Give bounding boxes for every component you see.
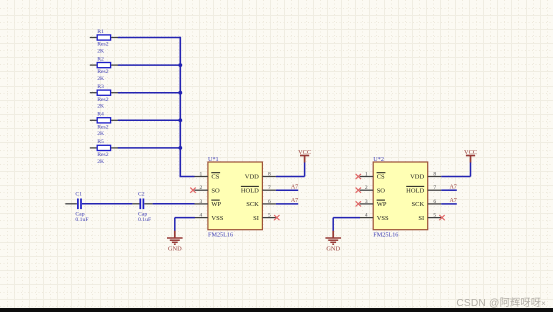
svg-text:GND: GND bbox=[168, 245, 182, 252]
U*2 pin 5 (SI) bbox=[418, 213, 441, 222]
U*1 pin 3 (WP) bbox=[194, 199, 221, 208]
svg-text:6: 6 bbox=[268, 199, 271, 205]
wire C2 to U*1 pin 3 bbox=[153, 203, 195, 205]
svg-text:1: 1 bbox=[365, 171, 368, 177]
U*1 pin 7 (HOLD) bbox=[241, 185, 276, 194]
no-ERC X on U*2 pin 1 bbox=[356, 174, 361, 179]
resistor R5 bbox=[90, 139, 118, 165]
capacitor C1 bbox=[65, 191, 88, 223]
svg-text:C2: C2 bbox=[138, 191, 145, 197]
no-ERC X on U*2 pin 2 bbox=[356, 188, 361, 193]
svg-text:2K: 2K bbox=[97, 131, 105, 137]
svg-text:1: 1 bbox=[200, 171, 203, 177]
svg-text:2: 2 bbox=[200, 185, 203, 191]
svg-text:4: 4 bbox=[200, 213, 203, 219]
svg-text:WP: WP bbox=[211, 201, 221, 208]
svg-text:R4: R4 bbox=[97, 112, 104, 118]
wire U*2 pin 4 to GND bbox=[333, 217, 360, 219]
svg-text:7: 7 bbox=[268, 185, 271, 191]
wire U*1 pin 6 net A7 bbox=[276, 203, 298, 205]
svg-text:2K: 2K bbox=[97, 104, 105, 110]
svg-text:Res2: Res2 bbox=[97, 42, 109, 48]
svg-text:SCK: SCK bbox=[412, 201, 425, 208]
svg-text:Res2: Res2 bbox=[97, 152, 109, 158]
U*1 pin 4 (VSS) bbox=[194, 213, 223, 222]
svg-text:R1: R1 bbox=[97, 29, 104, 35]
svg-text:6: 6 bbox=[433, 199, 436, 205]
svg-text:Res2: Res2 bbox=[97, 97, 109, 103]
ground GND at U*1 bbox=[167, 231, 183, 253]
U*1 pin 5 (SI) bbox=[253, 213, 276, 222]
svg-text:U*1: U*1 bbox=[208, 156, 219, 163]
svg-text:R2: R2 bbox=[97, 56, 104, 62]
svg-text:5: 5 bbox=[268, 213, 271, 219]
svg-text:GND: GND bbox=[326, 245, 340, 252]
svg-text:2K: 2K bbox=[97, 76, 105, 82]
svg-text:Res2: Res2 bbox=[97, 124, 109, 130]
svg-text:SI: SI bbox=[418, 215, 424, 222]
wire resistor bus vertical bbox=[179, 37, 181, 177]
svg-text:A7: A7 bbox=[449, 198, 456, 204]
no-ERC X on U*2 pin 3 bbox=[356, 201, 361, 206]
U*2 pin 3 (WP) bbox=[360, 199, 387, 208]
IC U*1 FM25L16 body bbox=[208, 156, 263, 239]
svg-text:U*2: U*2 bbox=[373, 156, 384, 163]
U*2 pin 2 (SO) bbox=[360, 185, 386, 194]
svg-text:SO: SO bbox=[211, 187, 220, 194]
svg-text:C1: C1 bbox=[75, 191, 82, 197]
svg-text:VDD: VDD bbox=[245, 174, 259, 181]
svg-text:FM25L16: FM25L16 bbox=[373, 232, 398, 239]
svg-text:4: 4 bbox=[365, 213, 368, 219]
svg-text:5: 5 bbox=[433, 213, 436, 219]
svg-text:3: 3 bbox=[200, 199, 203, 205]
svg-text:HOLD: HOLD bbox=[406, 187, 424, 194]
watermark bbox=[456, 294, 546, 309]
power VCC at U*2 bbox=[464, 149, 477, 163]
resistor R3 bbox=[90, 84, 118, 110]
U*1 pin 8 (VDD) bbox=[245, 171, 276, 180]
wire U*2 pin 6 net A7 bbox=[441, 203, 457, 205]
svg-text:A7: A7 bbox=[449, 184, 456, 190]
wire bus to U*1 pin 1 bbox=[180, 176, 195, 178]
svg-text:A7: A7 bbox=[291, 184, 298, 190]
svg-text:0.1uF: 0.1uF bbox=[138, 217, 151, 223]
wire R5 to bus bbox=[118, 147, 181, 149]
junction R3/bus bbox=[178, 91, 182, 95]
svg-text:VSS: VSS bbox=[211, 215, 223, 222]
wire R1 to bus bbox=[118, 37, 181, 39]
svg-text:8: 8 bbox=[268, 171, 271, 177]
junction R2/bus bbox=[178, 63, 182, 67]
U*2 pin 6 (SCK) bbox=[412, 199, 442, 208]
wire U*2 pin 7 net A7 bbox=[441, 189, 457, 191]
U*2 pin 7 (HOLD) bbox=[406, 185, 441, 194]
svg-text:VDD: VDD bbox=[410, 174, 424, 181]
svg-text:VSS: VSS bbox=[377, 215, 389, 222]
svg-text:CS: CS bbox=[211, 174, 219, 181]
junction R5/bus bbox=[178, 146, 182, 150]
svg-text:7: 7 bbox=[433, 185, 436, 191]
svg-text:0.1uF: 0.1uF bbox=[75, 217, 88, 223]
svg-text:WP: WP bbox=[377, 201, 387, 208]
svg-text:2: 2 bbox=[365, 185, 368, 191]
svg-text:Res2: Res2 bbox=[97, 69, 109, 75]
wire R2 to bus bbox=[118, 64, 181, 66]
wire C1 to C2 bbox=[82, 203, 132, 205]
resistor R1 bbox=[90, 29, 118, 55]
svg-text:CS: CS bbox=[377, 174, 385, 181]
wire U*2 pin 8 to VCC bbox=[441, 176, 470, 178]
junction R4/bus bbox=[178, 118, 182, 122]
svg-text:FM25L16: FM25L16 bbox=[208, 232, 233, 239]
ground GND at U*2 bbox=[325, 231, 341, 253]
svg-text:R3: R3 bbox=[97, 84, 104, 90]
wire R3 to bus bbox=[118, 92, 181, 94]
svg-text:HOLD: HOLD bbox=[241, 187, 259, 194]
IC U*2 FM25L16 body bbox=[373, 156, 428, 239]
svg-text:SO: SO bbox=[377, 187, 386, 194]
U*1 pin 2 (SO) bbox=[194, 185, 220, 194]
svg-text:2K: 2K bbox=[97, 48, 105, 54]
capacitor C2 bbox=[132, 191, 152, 223]
U*1 pin 6 (SCK) bbox=[246, 199, 276, 208]
wire U*1 pin 8 to VCC bbox=[276, 176, 305, 178]
U*2 pin 4 (VSS) bbox=[360, 213, 389, 222]
U*1 pin 1 (CS) bbox=[194, 171, 220, 180]
svg-text:SCK: SCK bbox=[246, 201, 259, 208]
svg-text:2K: 2K bbox=[97, 159, 105, 165]
svg-text:R5: R5 bbox=[97, 139, 104, 145]
wire R4 to bus bbox=[118, 119, 181, 121]
wire U*1 pin 7 net A7 bbox=[276, 189, 298, 191]
U*2 pin 8 (VDD) bbox=[410, 171, 441, 180]
svg-text:SI: SI bbox=[253, 215, 259, 222]
svg-text:A7: A7 bbox=[291, 198, 298, 204]
no-ERC X on U*1 pin 2 bbox=[190, 188, 195, 193]
bottom black bar bbox=[0, 308, 553, 312]
svg-text:8: 8 bbox=[433, 171, 436, 177]
resistor R2 bbox=[90, 56, 118, 82]
wire U*1 pin 4 to GND bbox=[175, 217, 195, 219]
no-ERC X on U*2 pin 5 bbox=[439, 215, 444, 220]
U*2 pin 1 (CS) bbox=[360, 171, 386, 180]
svg-text:3: 3 bbox=[365, 199, 368, 205]
no-ERC X on U*1 pin 5 bbox=[274, 215, 279, 220]
resistor R4 bbox=[90, 112, 118, 138]
power VCC at U*1 bbox=[298, 149, 311, 163]
